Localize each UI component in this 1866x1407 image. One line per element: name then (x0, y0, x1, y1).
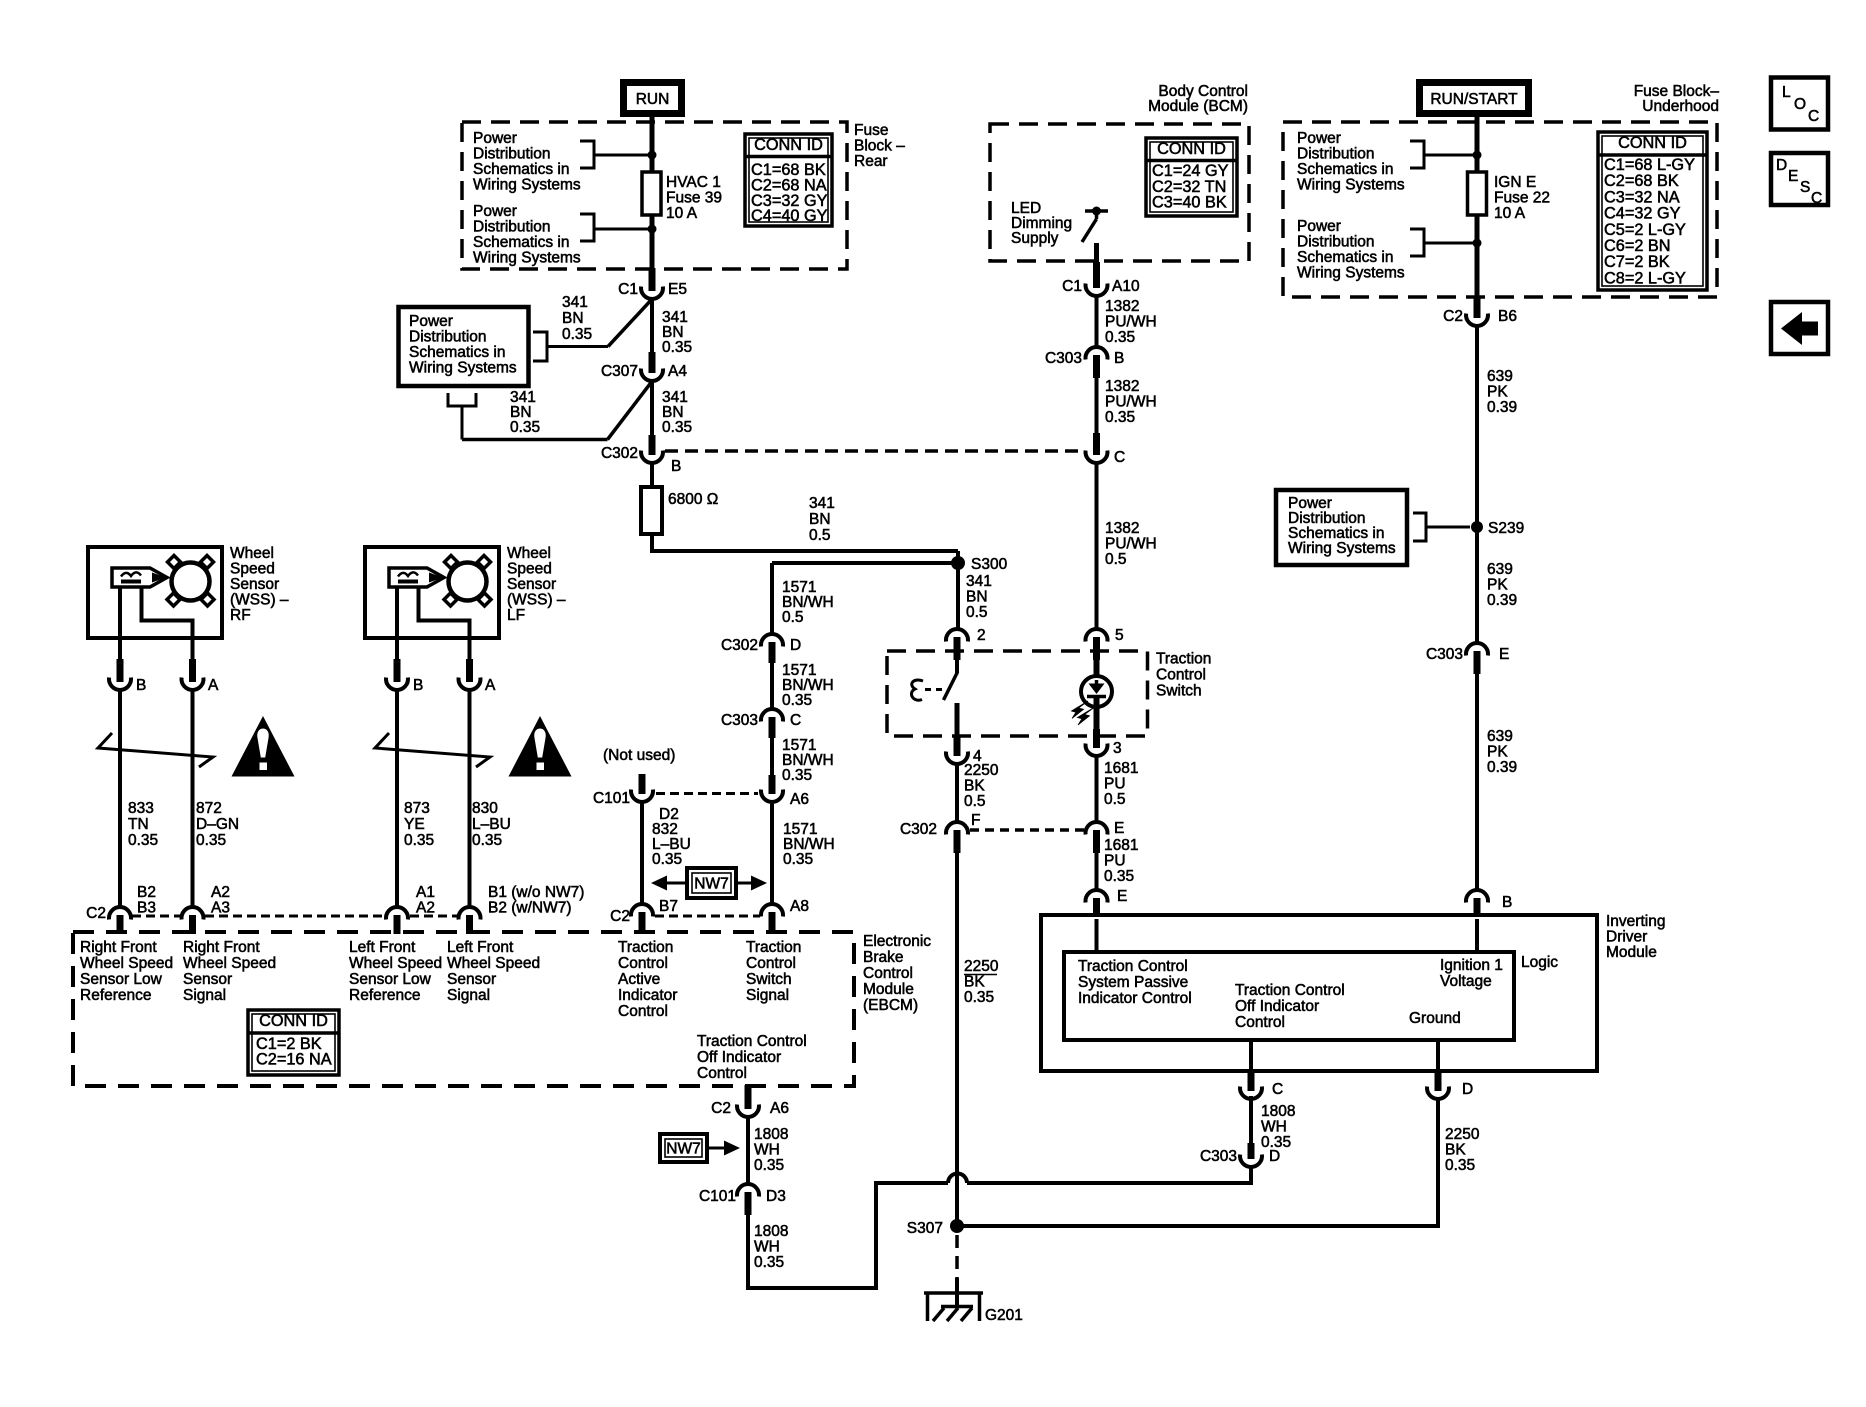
svg-text:D: D (1462, 1081, 1473, 1098)
svg-text:Wheel Speed: Wheel Speed (80, 955, 173, 972)
svg-text:Underhood: Underhood (1642, 98, 1719, 115)
svg-text:C: C (1114, 449, 1125, 466)
svg-text:B: B (1502, 894, 1512, 911)
svg-text:L–BU: L–BU (472, 816, 511, 833)
wheel speed sensor box LF (365, 547, 499, 638)
svg-text:Reference: Reference (349, 987, 421, 1004)
twisted pair symbol RF (98, 733, 213, 767)
svg-text:TN: TN (128, 816, 149, 833)
wire B6 to S239 (1475, 326, 1479, 527)
wire C302 D to C303 C (770, 663, 774, 709)
dashed connector line C302 F to E (970, 828, 1084, 832)
dashed connector line B7 to A8 (655, 915, 760, 918)
connector C302 F (946, 822, 968, 834)
wire fuse to connector C1 E5 (650, 215, 655, 269)
svg-text:0.35: 0.35 (510, 419, 540, 436)
svg-text:O: O (1794, 96, 1806, 113)
svg-text:PU/WH: PU/WH (1105, 314, 1157, 331)
svg-text:Inverting: Inverting (1606, 913, 1665, 930)
wire IDM B to logic box (1475, 919, 1479, 952)
wire C to switch pin 5 (1095, 463, 1099, 629)
wire C302 B to resistor (650, 463, 654, 488)
wire pin 5 to LED (1094, 660, 1100, 678)
wire C101 D2 to C2 B7 (640, 802, 644, 904)
svg-text:Distribution: Distribution (409, 329, 487, 346)
svg-text:Signal: Signal (746, 987, 789, 1004)
fuse IGN E Fuse 22 10A (1468, 172, 1487, 215)
wire C1 E5 to power distribution box (608, 298, 653, 347)
back arrow icon (1781, 312, 1802, 345)
svg-text:C303: C303 (721, 712, 758, 729)
svg-text:BK: BK (964, 974, 985, 991)
CONN ID table fuse block underhood (1598, 132, 1707, 290)
bracket link 2 (580, 214, 594, 241)
svg-text:Power: Power (409, 313, 453, 330)
connector switch pin 3 (1093, 729, 1100, 748)
svg-text:A1: A1 (416, 884, 435, 901)
svg-text:0.35: 0.35 (782, 767, 812, 784)
svg-text:Left Front: Left Front (447, 939, 514, 956)
svg-text:833: 833 (128, 800, 154, 817)
connector EBCM pin A2/A3 (182, 907, 204, 919)
wire fuse IGN E down (1475, 215, 1480, 297)
connector IDM C (1248, 1070, 1255, 1091)
svg-text:Signal: Signal (183, 987, 226, 1004)
svg-text:(Not used): (Not used) (603, 747, 675, 764)
svg-text:C302: C302 (721, 637, 758, 654)
svg-text:Wheel Speed: Wheel Speed (349, 955, 442, 972)
svg-text:0.39: 0.39 (1487, 592, 1517, 609)
svg-text:0.35: 0.35 (754, 1254, 784, 1271)
sensor internal wires RF (118, 587, 122, 660)
svg-text:C302: C302 (601, 445, 638, 462)
svg-text:Power: Power (473, 203, 517, 220)
svg-text:0.5: 0.5 (1104, 791, 1126, 808)
svg-text:A: A (208, 677, 219, 694)
svg-text:Active: Active (618, 971, 660, 988)
svg-text:C8=2 L-GY: C8=2 L-GY (1604, 269, 1686, 287)
svg-text:A3: A3 (211, 900, 230, 917)
svg-text:C: C (1808, 108, 1819, 125)
connector C307 A4 (649, 352, 656, 373)
svg-text:E: E (1788, 168, 1798, 185)
reluctor ring icon LF (449, 563, 487, 601)
svg-text:Control: Control (697, 1065, 747, 1082)
svg-text:L: L (1782, 84, 1791, 101)
svg-text:A10: A10 (1112, 278, 1140, 295)
svg-text:0.35: 0.35 (964, 989, 994, 1006)
warning triangle LF (509, 716, 572, 777)
svg-text:(WSS) –: (WSS) – (230, 592, 289, 609)
ignition switch feed box RUN/START (1420, 83, 1529, 114)
svg-text:CONN ID: CONN ID (754, 136, 823, 154)
svg-text:Wheel Speed: Wheel Speed (183, 955, 276, 972)
wire IDM D to S307 (1436, 1099, 1440, 1226)
svg-text:Traction: Traction (1156, 651, 1211, 668)
connector IDM D (1435, 1070, 1442, 1091)
connector EBCM A6 (769, 775, 776, 794)
svg-text:0.5: 0.5 (1105, 551, 1127, 568)
svg-text:S239: S239 (1488, 520, 1524, 537)
svg-text:NW7: NW7 (666, 1141, 700, 1158)
svg-text:639: 639 (1487, 728, 1513, 745)
switch LED dimming supply (1085, 209, 1108, 213)
svg-text:C1: C1 (1062, 278, 1082, 295)
svg-text:Brake: Brake (863, 949, 904, 966)
svg-text:Sensor: Sensor (183, 971, 232, 988)
splice S307 (950, 1219, 964, 1233)
svg-text:Schematics in: Schematics in (1297, 161, 1393, 178)
svg-text:C302: C302 (900, 821, 937, 838)
ignition switch feed box RUN (624, 83, 682, 114)
connector EBCM C2 A6 bottom (745, 1085, 752, 1109)
connector C302 D (761, 634, 783, 646)
svg-text:0.35: 0.35 (472, 832, 502, 849)
svg-text:1681: 1681 (1104, 837, 1138, 854)
wheel speed sensor box RF (88, 547, 222, 638)
svg-text:1382: 1382 (1105, 520, 1139, 537)
svg-text:C307: C307 (601, 363, 638, 380)
wire WSS RF A to EBCM (191, 690, 195, 908)
bracket link 6 (1410, 229, 1424, 256)
svg-text:Module (BCM): Module (BCM) (1148, 98, 1248, 115)
svg-text:PU/WH: PU/WH (1105, 536, 1157, 553)
connector C303 E (1466, 643, 1488, 655)
svg-text:BN: BN (966, 589, 988, 606)
connector IDM E (1086, 890, 1108, 902)
splice S300 (951, 556, 965, 570)
CONN ID table fuse block rear (745, 134, 832, 226)
svg-text:6800 Ω: 6800 Ω (668, 491, 718, 508)
connector C1 E5 (649, 268, 656, 291)
svg-text:0.35: 0.35 (754, 1157, 784, 1174)
connector switch pin 2 (946, 629, 968, 641)
svg-text:A4: A4 (668, 363, 687, 380)
connector C101 D2 (631, 790, 653, 802)
svg-text:Supply: Supply (1011, 230, 1059, 247)
connector C303 B (1086, 347, 1108, 359)
wire S300 branch to C302 D (772, 561, 958, 565)
svg-text:S307: S307 (907, 1220, 943, 1237)
svg-text:Wheel: Wheel (230, 545, 274, 562)
junction dot fuse block underhood top (1473, 151, 1482, 160)
dashed connector line C101 to A6 (656, 792, 758, 795)
svg-text:IGN E: IGN E (1494, 174, 1536, 191)
svg-text:S: S (1800, 179, 1810, 196)
DESC reference box (1771, 153, 1828, 205)
svg-text:0.39: 0.39 (1487, 399, 1517, 416)
connector C302 B (649, 435, 656, 455)
svg-text:Switch: Switch (1156, 683, 1202, 700)
svg-text:Voltage: Voltage (1440, 973, 1492, 990)
svg-text:C2: C2 (711, 1100, 731, 1117)
back arrow box (1771, 302, 1828, 354)
svg-text:Distribution: Distribution (473, 219, 551, 236)
svg-text:B7: B7 (659, 898, 678, 915)
svg-text:Traction: Traction (618, 939, 673, 956)
svg-text:0.35: 0.35 (1105, 329, 1135, 346)
wire logic to IDM D (1436, 1040, 1440, 1071)
svg-text:C4=40 GY: C4=40 GY (751, 207, 828, 225)
wire hop over EBCM ground wire (948, 1174, 967, 1184)
sensor internal wires LF (395, 587, 399, 660)
svg-text:Ignition 1: Ignition 1 (1440, 957, 1503, 974)
svg-text:Left Front: Left Front (349, 939, 416, 956)
wire pin 4 to C302 F (955, 764, 959, 822)
NW7 reference box right arrow (660, 1134, 707, 1162)
svg-text:Right Front: Right Front (80, 939, 157, 956)
power distribution box upper left (399, 307, 529, 386)
svg-text:HVAC 1: HVAC 1 (666, 174, 721, 191)
svg-text:Sensor Low: Sensor Low (349, 971, 432, 988)
svg-text:A2: A2 (211, 884, 230, 901)
connector C303 C (761, 709, 783, 721)
connector C302 C (1093, 433, 1100, 455)
svg-text:Distribution: Distribution (473, 146, 551, 163)
svg-text:0.35: 0.35 (1104, 868, 1134, 885)
svg-text:B2 (w/NW7): B2 (w/NW7) (488, 900, 572, 917)
svg-text:PU/WH: PU/WH (1105, 394, 1157, 411)
svg-text:E5: E5 (668, 281, 687, 298)
fuse block underhood dashed box (1283, 122, 1717, 297)
wire resistor to S300 (650, 534, 654, 551)
wire A4 to C302 B (650, 379, 654, 436)
LED light rays (1072, 701, 1089, 719)
connector EBCM pin A1/A2 (386, 907, 408, 919)
svg-text:Wiring Systems: Wiring Systems (1297, 265, 1405, 282)
svg-text:0.35: 0.35 (128, 832, 158, 849)
svg-text:2250: 2250 (964, 762, 999, 779)
svg-text:0.35: 0.35 (404, 832, 434, 849)
svg-text:10 A: 10 A (666, 205, 698, 222)
LOC reference box (1771, 78, 1828, 130)
svg-text:3: 3 (1113, 740, 1122, 757)
svg-text:D: D (1776, 157, 1787, 174)
svg-text:C101: C101 (699, 1188, 736, 1205)
svg-text:Sensor: Sensor (447, 971, 496, 988)
svg-text:Control: Control (746, 955, 796, 972)
svg-text:B6: B6 (1498, 308, 1517, 325)
splice S239 (1471, 521, 1483, 533)
svg-text:Power: Power (473, 130, 517, 147)
svg-text:Indicator: Indicator (618, 987, 677, 1004)
svg-text:C: C (1811, 190, 1822, 207)
svg-text:G201: G201 (985, 1307, 1023, 1324)
wire pin 3 to C302 E (1095, 756, 1099, 822)
svg-text:BN: BN (562, 310, 584, 327)
dashed connector line EBCM C2 wss pins (132, 915, 181, 918)
svg-text:C101: C101 (593, 790, 630, 807)
wire RUN/START to fuse IGN E (1475, 117, 1480, 174)
wire RUN box to fuse HVAC1 (650, 117, 655, 174)
svg-text:10 A: 10 A (1494, 205, 1526, 222)
svg-text:NW7: NW7 (694, 876, 728, 893)
svg-text:E: E (1499, 646, 1509, 663)
svg-text:Schematics in: Schematics in (409, 344, 505, 361)
bracket link 5 (1410, 141, 1424, 168)
svg-text:Ground: Ground (1409, 1010, 1461, 1027)
svg-text:(WSS) –: (WSS) – (507, 592, 566, 609)
traction control momentary switch (955, 660, 959, 673)
svg-text:(EBCM): (EBCM) (863, 997, 918, 1014)
svg-text:Module: Module (1606, 944, 1657, 961)
svg-text:WH: WH (754, 1142, 780, 1159)
connector C1 A10 (1093, 262, 1100, 288)
electronic brake control module dashed box (73, 932, 854, 1086)
svg-text:C3=40 BK: C3=40 BK (1152, 194, 1227, 212)
svg-text:Traction Control: Traction Control (1235, 982, 1345, 999)
svg-text:0.35: 0.35 (562, 326, 592, 343)
svg-text:0.35: 0.35 (662, 339, 692, 356)
bracket link 4 below power distribution box (448, 393, 476, 406)
wire LED to pin 3 (1094, 697, 1100, 731)
wire logic to IDM C (1249, 1040, 1253, 1071)
svg-text:2250: 2250 (964, 958, 999, 975)
svg-text:CONN ID: CONN ID (259, 1012, 328, 1030)
connector EBCM C2 pin B2/B3 (109, 907, 131, 919)
svg-text:Sensor: Sensor (507, 576, 556, 593)
warning triangle RF (232, 716, 295, 777)
svg-text:1808: 1808 (1261, 1103, 1295, 1120)
bracket link 1 (580, 141, 594, 168)
wire E5 to C307 A4 (650, 297, 654, 354)
svg-text:Distribution: Distribution (1297, 234, 1375, 251)
svg-text:RF: RF (230, 607, 251, 624)
junction dot fuse block rear bottom (648, 225, 657, 234)
svg-text:0.39: 0.39 (1487, 759, 1517, 776)
power distribution box right (1276, 490, 1407, 565)
svg-text:Control: Control (1235, 1014, 1285, 1031)
svg-text:0.35: 0.35 (652, 851, 682, 868)
svg-text:BK: BK (964, 778, 985, 795)
svg-text:2: 2 (977, 627, 986, 644)
svg-text:C: C (1272, 1081, 1283, 1098)
connector EBCM A8 (761, 904, 783, 916)
wire C303 B to C302 C (1095, 378, 1099, 434)
svg-text:Signal: Signal (447, 987, 490, 1004)
svg-text:C2=16 NA: C2=16 NA (256, 1050, 332, 1068)
svg-text:E: E (1117, 888, 1127, 905)
connector switch pin 4 (954, 737, 961, 756)
wire C302 F to S307 (955, 853, 959, 1221)
svg-text:Power: Power (1297, 130, 1341, 147)
wire IDM E to logic box (1095, 919, 1099, 952)
svg-text:0.35: 0.35 (662, 419, 692, 436)
svg-text:Off Indicator: Off Indicator (1235, 998, 1319, 1015)
svg-text:Logic: Logic (1521, 954, 1558, 971)
svg-text:Traction Control: Traction Control (1078, 958, 1188, 975)
svg-text:B: B (671, 458, 681, 475)
svg-text:Fuse: Fuse (854, 122, 888, 139)
connector C101 D3 (737, 1184, 759, 1196)
svg-text:Traction: Traction (746, 939, 801, 956)
svg-text:BN: BN (809, 511, 831, 528)
svg-text:Schematics in: Schematics in (1297, 249, 1393, 266)
wire S300 to switch pin 2 (956, 563, 960, 629)
svg-text:C2: C2 (1443, 308, 1463, 325)
wire C303 D to IDM C (1249, 1096, 1253, 1144)
svg-text:Speed: Speed (507, 561, 552, 578)
svg-text:Electronic: Electronic (863, 933, 931, 950)
svg-text:5: 5 (1115, 627, 1124, 644)
svg-text:1808: 1808 (754, 1223, 788, 1240)
connector WSS LF pin A (466, 659, 473, 682)
svg-text:PK: PK (1487, 384, 1508, 401)
svg-text:Sensor: Sensor (230, 576, 279, 593)
dashed connector line C302 B to BCM C (665, 449, 1083, 453)
junction dot fuse block underhood bottom (1473, 239, 1482, 248)
svg-text:RUN: RUN (636, 91, 670, 108)
svg-text:Wiring Systems: Wiring Systems (473, 250, 581, 267)
svg-text:A2: A2 (416, 900, 435, 917)
svg-text:System Passive: System Passive (1078, 974, 1188, 991)
svg-text:Control: Control (1156, 667, 1206, 684)
twisted pair symbol LF (375, 733, 490, 767)
bracket link 7 (1413, 513, 1426, 541)
NW7 reference box double arrow (687, 868, 736, 898)
svg-text:0.35: 0.35 (1445, 1157, 1475, 1174)
svg-text:B: B (136, 677, 146, 694)
svg-text:Fuse 22: Fuse 22 (1494, 190, 1550, 207)
svg-text:1808: 1808 (754, 1126, 788, 1143)
svg-text:D–GN: D–GN (196, 816, 239, 833)
svg-text:C303: C303 (1045, 350, 1082, 367)
svg-text:Module: Module (863, 981, 914, 998)
wire WSS RF B to EBCM (118, 690, 122, 908)
svg-text:PK: PK (1487, 577, 1508, 594)
svg-text:S300: S300 (971, 556, 1008, 573)
svg-text:Wiring Systems: Wiring Systems (473, 177, 581, 194)
junction dot fuse block rear top (648, 151, 657, 160)
svg-text:873: 873 (404, 800, 430, 817)
svg-text:Wiring Systems: Wiring Systems (1297, 177, 1405, 194)
ground G201 (955, 1278, 959, 1307)
svg-text:C303: C303 (1426, 646, 1463, 663)
svg-text:872: 872 (196, 800, 222, 817)
connector C2 B7 (631, 904, 653, 916)
svg-text:LF: LF (507, 607, 525, 624)
svg-text:PK: PK (1487, 744, 1508, 761)
connector C302 E (1086, 822, 1108, 834)
connector switch pin 5 (1086, 629, 1108, 641)
svg-text:YE: YE (404, 816, 425, 833)
svg-text:C1: C1 (618, 281, 638, 298)
svg-text:B2: B2 (137, 884, 156, 901)
fuse block - rear dashed box (462, 122, 847, 269)
connector IDM B (1466, 890, 1488, 902)
svg-text:E: E (1114, 820, 1124, 837)
svg-text:Driver: Driver (1606, 929, 1647, 946)
svg-text:Control: Control (618, 1003, 668, 1020)
svg-text:0.35: 0.35 (783, 851, 813, 868)
svg-text:Speed: Speed (230, 561, 275, 578)
svg-text:WH: WH (754, 1239, 780, 1256)
svg-text:C: C (790, 712, 801, 729)
svg-text:Wiring Systems: Wiring Systems (409, 360, 517, 377)
svg-text:A6: A6 (790, 791, 809, 808)
connector WSS RF pin B (117, 659, 124, 682)
svg-text:B1 (w/o NW7): B1 (w/o NW7) (488, 884, 584, 901)
fuse HVAC 1 Fuse 39 10A (642, 172, 661, 215)
svg-text:0.5: 0.5 (782, 609, 804, 626)
resistor 6800 ohm (641, 487, 662, 534)
svg-text:Reference: Reference (80, 987, 152, 1004)
connector WSS LF pin B (394, 659, 401, 682)
svg-text:Traction Control: Traction Control (697, 1033, 807, 1050)
svg-text:0.5: 0.5 (966, 604, 988, 621)
svg-text:639: 639 (1487, 368, 1513, 385)
svg-text:A8: A8 (790, 898, 809, 915)
